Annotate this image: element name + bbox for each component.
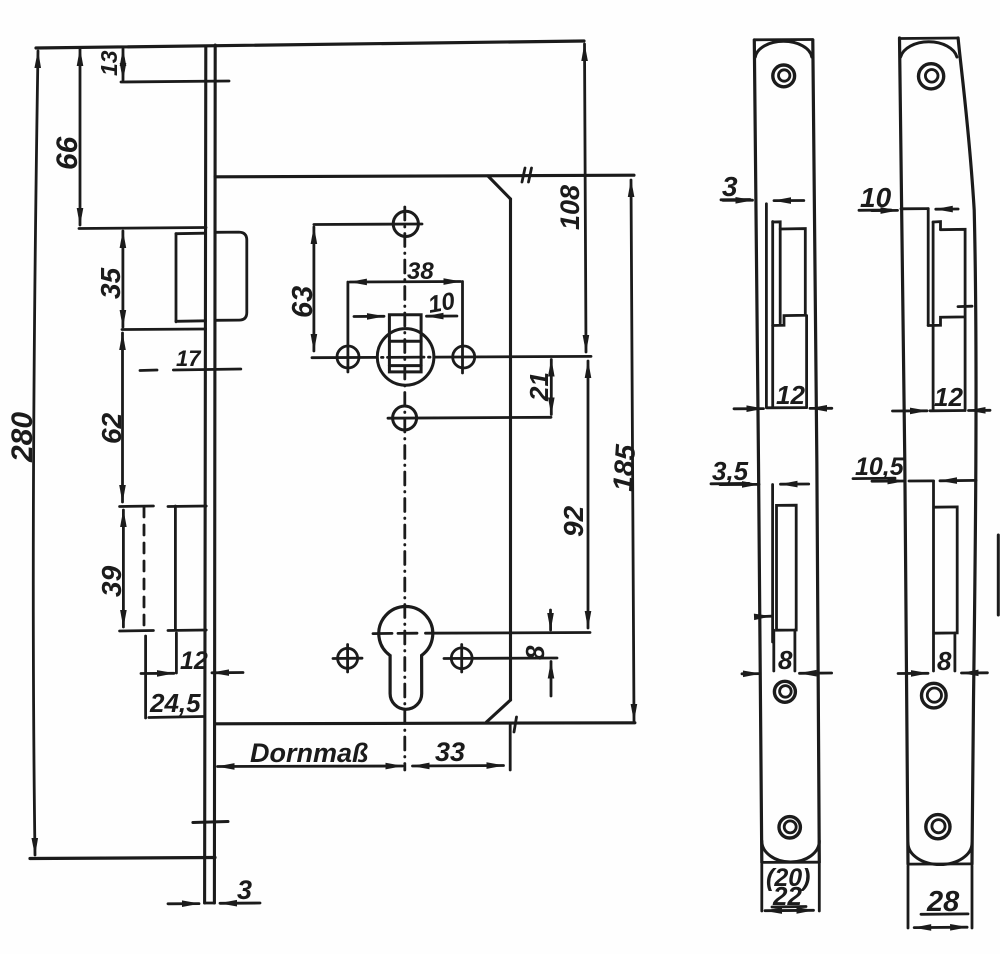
plate1 bottom line [762,861,820,864]
svg-text:12: 12 [180,647,208,675]
svg-text:3,5: 3,5 [712,456,749,486]
lower hole below follower [393,406,417,430]
plate2 cutout top connector [901,207,928,210]
svg-text:108: 108 [555,185,585,230]
follower right screw hole [453,346,475,368]
cylinder left screw hole crosshair [333,657,362,660]
lock case bottom edge [215,723,635,724]
plate1 top cap [754,38,813,41]
dimension 38 left extension [346,282,349,372]
dimension 38 right extension [461,282,464,374]
dimension 17 left dash [140,369,157,372]
top hole [393,211,418,236]
follower circle [377,329,434,386]
dimension 8 plate1 arrows [742,672,760,675]
dimension 22 underline [772,905,806,908]
plate2 latch insert box [928,229,965,325]
lock case right edge extension below [509,724,512,770]
single tick on case bottom line [514,717,517,732]
dimension 3 plate1 arrows [723,199,753,202]
svg-text:8: 8 [520,645,550,660]
svg-text:280: 280 [6,412,39,463]
plate2 small tick [958,305,972,308]
dimension 35 line [122,231,125,327]
centerline vertical dash-dot [403,207,406,770]
plate2 latch cutout lip line [927,209,930,326]
wire top door edge line [36,41,584,48]
svg-text:Dornmaß: Dornmaß [250,738,369,768]
dimension 63 line [312,227,315,351]
plate1 lower slot extension lines [772,630,775,671]
dimension 12 deadbolt extension [175,633,178,673]
plate1 bottom extensions [760,864,763,911]
faceplate break tick [193,822,228,823]
plate2 right edge [958,38,976,864]
dimension 12 plate1 arrows [734,407,764,410]
lower hole horizontal line [388,416,551,420]
plate2 lower slot box [934,507,957,633]
follower horizontal centerline [312,356,377,359]
plate2 lower slot right extension [954,633,957,671]
plate2 top arc [901,42,957,57]
dimension 13 line [122,49,125,80]
follower left screw hole [337,346,359,368]
plate1 bottom arc [762,841,820,862]
plate2 bottom extensions [907,866,910,928]
plate2 top cap [900,37,959,40]
dimension 3,5 arrows [720,483,759,486]
deadbolt top tick lines [120,505,154,508]
plate2 latch cutout left strip [932,222,935,323]
plate1 lower slot box [777,505,797,630]
top hole horizontal line [314,223,422,226]
svg-text:10,5: 10,5 [855,453,905,481]
latch head left box [176,233,206,322]
svg-text:66: 66 [51,136,84,170]
PLATE 2 (round faceplate 28) [853,38,990,928]
dimension 108 line [585,44,587,352]
svg-text:8: 8 [937,646,952,676]
plate1 middle screw hole [774,681,795,702]
double tick on case top line [522,168,525,182]
svg-text:63: 63 [287,286,319,318]
dimension 10 plate2 underline [859,209,891,212]
plate2 top screw hole [919,64,944,89]
svg-text:92: 92 [558,505,589,537]
lock case right edge [509,199,512,700]
plate1 latch cutout left edge [771,222,774,408]
plate1 top arc [755,41,812,57]
plate1 cutout bottom line [766,406,806,409]
svg-text:185: 185 [607,443,641,492]
plate1 latch cutout lip line [765,204,768,408]
svg-text:10: 10 [426,288,458,319]
svg-text:8: 8 [778,645,793,675]
plate2 lower cutout edges [932,326,935,411]
svg-text:3: 3 [722,171,738,202]
deadbolt box [174,506,177,630]
wire 8 line lower [444,657,557,660]
dimension 21 line [550,360,553,415]
dimension 8 arrows left view [549,610,552,630]
dimension 66 line [79,49,82,225]
latch head right box [216,232,247,320]
dimension 28 arrow [914,926,967,929]
dimension 39 line [122,510,125,627]
euro cylinder profile hole [379,607,433,710]
dimension 3 plate1 underline [721,198,750,201]
dimension 8 plate2 arrows [898,672,928,675]
faceplate left edge [205,46,206,903]
PLATE 1 (flat faceplate 22) [711,40,832,912]
svg-text:24,5: 24,5 [149,688,201,718]
plate2 left edge [900,38,909,864]
dimension 280 line [33,51,38,855]
plate1 latch insert box [773,229,806,326]
plate1 top screw hole [773,65,795,87]
dimension 185 line [631,180,634,721]
svg-text:39: 39 [96,565,127,597]
svg-text:62: 62 [96,412,127,444]
faceplate right edge [213,45,217,903]
wire latch bottom reference line [122,328,206,331]
wire bottom door edge line [30,858,215,859]
plate1 latch insert step [773,222,781,323]
plate1 lower cutout right edge [805,316,808,408]
svg-text:38: 38 [407,258,434,285]
faceplate bottom cap [205,902,215,905]
svg-text:21: 21 [524,372,554,402]
dimension 38 line [350,280,461,283]
plate2 lower cutout lip [932,481,935,671]
svg-text:17: 17 [176,346,202,371]
svg-text:3: 3 [237,875,252,905]
wire latch top reference line [79,228,206,229]
dimension 28 underline [921,913,968,916]
lock case top edge [215,175,634,177]
dimension 3,5 underline [711,482,749,485]
dimension 10 plate2 arrows [872,209,898,212]
dimension 92 line [587,361,590,628]
dimension Dornmass line [218,765,403,768]
plate2 middle screw hole [922,683,947,708]
lock case top chamfer [488,176,511,199]
cylinder right screw hole [451,648,472,669]
plate1 left edge [754,40,762,862]
wire reference line 13 [121,81,229,82]
cylinder horizontal centerline segments [373,632,392,635]
deadbolt thrown dashed edge [143,507,146,630]
cylinder left screw hole [338,648,358,668]
plate1 lower guide line with arrow [771,485,774,617]
dimension 3 faceplate arrows [168,902,199,905]
plate2 lower cutout connector [909,479,934,482]
plate1 bottom screw hole [779,817,800,838]
MAIN VIEW LEFT [6,41,641,905]
dimension 10 arrows [354,315,384,318]
dimension 22 arrow [765,909,814,912]
svg-text:12: 12 [934,382,963,412]
plate2 cutout bottom line [930,409,965,412]
dimension 17 underline [173,369,240,370]
follower square hub [389,315,421,372]
dimension 10,5 underline [853,477,895,480]
svg-text:13: 13 [96,50,122,76]
dimension 33 line [413,764,504,767]
dimension 12 deadbolt arrows [141,672,174,675]
plate2 latch insert step [933,222,940,230]
svg-text:33: 33 [435,737,465,767]
lock case bottom chamfer [487,700,511,722]
svg-text:10: 10 [860,182,892,213]
plate2 bottom arc [908,843,972,865]
deadbolt bottom tick lines [120,629,154,632]
scan artifact right edge [997,535,1000,615]
dimension 12 plate2 arrows [893,409,928,412]
svg-text:35: 35 [95,267,126,299]
dimension 10,5 arrows [872,480,905,483]
plate1 right edge [813,40,820,862]
plate2 bottom screw hole [926,815,950,839]
dimension 24,5 extension [144,636,147,718]
dimension 24,5 underline [149,717,203,718]
dimension 62 line [121,333,124,502]
svg-text:12: 12 [776,380,805,410]
cylinder right screw hole crosshair vertical [460,645,463,673]
plate2 bottom line [908,863,972,866]
